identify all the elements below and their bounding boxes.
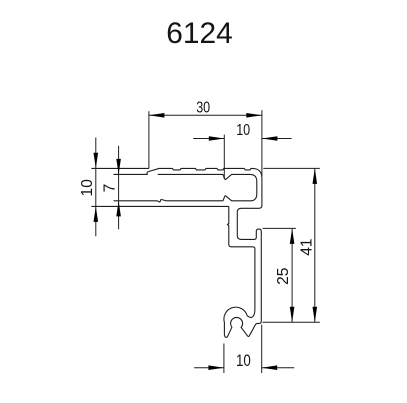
svg-text:25: 25: [275, 267, 292, 285]
svg-text:10: 10: [79, 179, 96, 197]
svg-text:41: 41: [298, 238, 315, 255]
svg-text:7: 7: [102, 184, 119, 193]
svg-text:30: 30: [196, 100, 210, 117]
svg-text:10: 10: [236, 352, 251, 370]
svg-text:6124: 6124: [166, 17, 233, 50]
svg-text:10: 10: [236, 122, 250, 139]
